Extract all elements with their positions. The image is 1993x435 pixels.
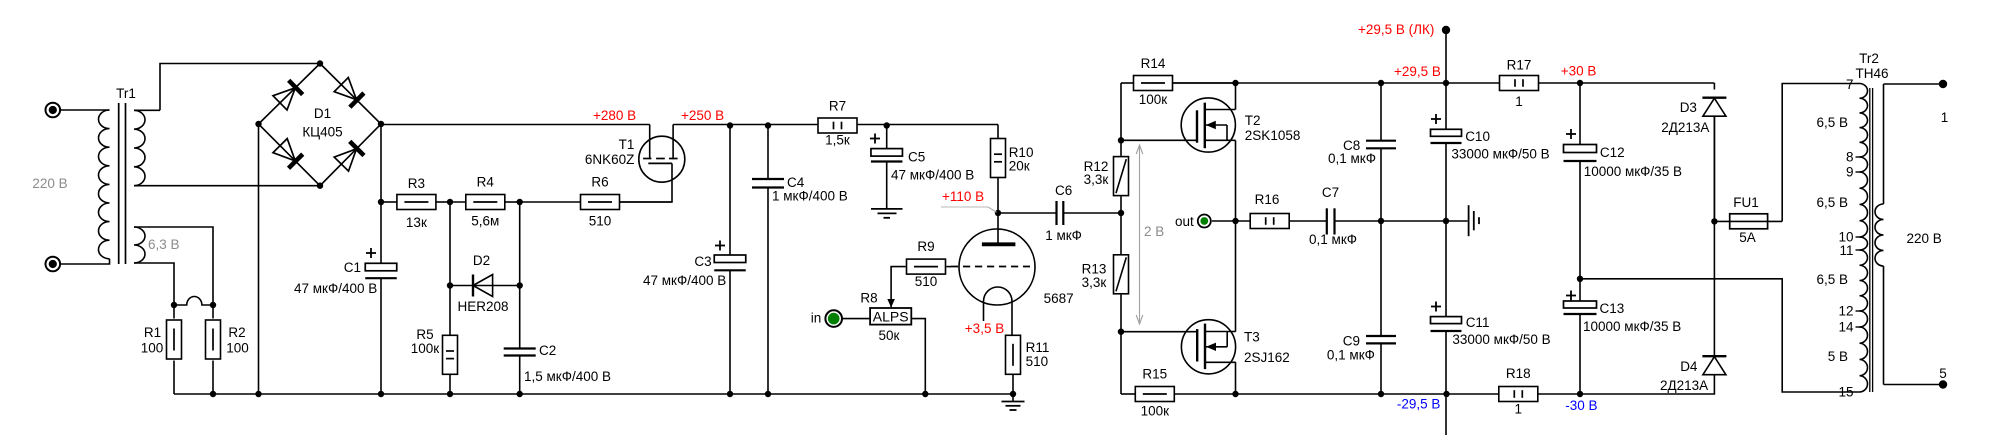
- svg-text:+29,5 В (ЛК): +29,5 В (ЛК): [1358, 22, 1434, 37]
- svg-text:1: 1: [1941, 110, 1949, 125]
- svg-text:ALPS: ALPS: [873, 309, 909, 325]
- transformer Tr1 core: [118, 103, 120, 264]
- tube T1 envelope: [639, 136, 685, 182]
- capacitor C7: [1326, 208, 1328, 234]
- svg-text:6,5 В: 6,5 В: [1816, 272, 1848, 287]
- svg-text:2 В: 2 В: [1144, 224, 1164, 239]
- svg-text:15: 15: [1838, 385, 1853, 400]
- svg-text:47 мкФ/400 В: 47 мкФ/400 В: [891, 167, 974, 182]
- svg-text:10000 мкФ/35 В: 10000 мкФ/35 В: [1583, 319, 1681, 334]
- svg-text:C10: C10: [1465, 129, 1490, 144]
- node C11 rail: [1443, 391, 1449, 397]
- wire D4 cathode up: [1713, 221, 1715, 355]
- svg-text:6,5 В: 6,5 В: [1816, 195, 1848, 210]
- tube T1 cathode lead to R6: [619, 163, 672, 202]
- tube 5687 envelope: [959, 229, 1035, 305]
- svg-text:R16: R16: [1255, 192, 1280, 207]
- tube T1 right lead to +250 rail: [672, 125, 674, 160]
- svg-text:50к: 50к: [879, 328, 900, 343]
- tube T1 cathode plate: [648, 162, 672, 164]
- svg-text:1,5к: 1,5к: [825, 133, 850, 148]
- node C6 out tap: [1118, 210, 1124, 216]
- wire +250 rail: [673, 124, 998, 126]
- terminal input bottom: [46, 257, 61, 272]
- svg-text:5,6м: 5,6м: [471, 213, 499, 228]
- svg-text:C3: C3: [694, 254, 711, 269]
- svg-text:3,3к: 3,3к: [1084, 172, 1109, 187]
- capacitor C2: [504, 347, 536, 349]
- wire Tr2 pin5: [1884, 384, 1944, 386]
- node C13 rail: [1577, 391, 1583, 397]
- svg-text:1: 1: [1515, 401, 1523, 416]
- svg-text:33000 мкФ/50 В: 33000 мкФ/50 В: [1452, 332, 1550, 347]
- svg-text:0,1 мкФ: 0,1 мкФ: [1328, 151, 1376, 166]
- bridge diode lower-left: [289, 154, 303, 168]
- svg-text:1: 1: [1515, 94, 1523, 109]
- svg-text:2Д213А: 2Д213А: [1661, 120, 1709, 135]
- node R2 ground: [210, 391, 216, 397]
- resistor R13: [1114, 255, 1129, 294]
- transformer Tr2 secondary winding: [1883, 84, 1885, 204]
- svg-text:47 мкФ/400 В: 47 мкФ/400 В: [294, 281, 377, 296]
- capacitor C9: [1380, 221, 1382, 336]
- node out tap: [1232, 218, 1238, 224]
- label C10 plus: [1431, 118, 1441, 120]
- wire out to node: [1212, 220, 1250, 222]
- svg-text:1 мкФ/400 В: 1 мкФ/400 В: [772, 189, 848, 204]
- label C1 plus: [366, 252, 376, 254]
- resistor R10: [997, 125, 999, 139]
- capacitor C6: [998, 212, 1057, 214]
- node FU1: [1711, 218, 1717, 224]
- node C10 rail: [1443, 80, 1449, 86]
- svg-text:+280 В: +280 В: [593, 108, 636, 123]
- svg-text:R14: R14: [1141, 56, 1166, 71]
- svg-text:C6: C6: [1055, 183, 1072, 198]
- Tr2 pin tick y237: [1856, 236, 1861, 238]
- diode D2: [450, 285, 473, 287]
- node C12-C13 mid: [1577, 276, 1583, 282]
- svg-text:+3,5 В: +3,5 В: [965, 321, 1004, 336]
- svg-text:T1: T1: [619, 137, 635, 152]
- svg-text:100к: 100к: [1141, 404, 1170, 419]
- svg-text:220 В: 220 В: [1907, 231, 1942, 246]
- svg-text:КЦ405: КЦ405: [302, 125, 342, 140]
- wire heater top to R2: [134, 227, 213, 304]
- svg-text:100к: 100к: [1139, 92, 1168, 107]
- terminal input top: [46, 103, 61, 118]
- label C12 plus: [1566, 133, 1576, 135]
- tube heater filament: [174, 297, 213, 306]
- svg-text:510: 510: [915, 274, 938, 289]
- svg-text:-29,5 В: -29,5 В: [1397, 397, 1441, 412]
- node bridge bottom: [317, 183, 323, 189]
- svg-text:+30 В: +30 В: [1561, 63, 1597, 78]
- wire Tr2 pin1: [1884, 83, 1944, 85]
- wire T2 gate: [1121, 139, 1197, 141]
- node R5 ground: [447, 391, 453, 397]
- svg-text:2Д213А: 2Д213А: [1660, 378, 1708, 393]
- svg-text:7: 7: [1846, 77, 1854, 92]
- svg-text:R18: R18: [1506, 366, 1531, 381]
- fuse FU1: [1714, 220, 1782, 222]
- svg-text:8: 8: [1846, 150, 1854, 165]
- node T3 gate tap: [1118, 329, 1124, 335]
- svg-text:+29,5 В: +29,5 В: [1394, 64, 1441, 79]
- svg-text:R3: R3: [408, 176, 425, 191]
- tube T1 heater dashes: [643, 158, 651, 160]
- svg-text:2SJ162: 2SJ162: [1244, 350, 1290, 365]
- svg-text:D4: D4: [1680, 359, 1698, 374]
- resistor R9: [907, 259, 946, 274]
- resistor R11: [1006, 335, 1021, 374]
- svg-text:R2: R2: [228, 325, 245, 340]
- svg-text:R17: R17: [1507, 57, 1532, 72]
- svg-text:33000 мкФ/50 В: 33000 мкФ/50 В: [1451, 147, 1549, 162]
- svg-text:C2: C2: [539, 343, 556, 358]
- wire +30 rail corner down: [1713, 83, 1715, 90]
- resistor R5: [443, 335, 458, 374]
- svg-text:5687: 5687: [1044, 291, 1074, 306]
- capacitor C3: [729, 125, 731, 256]
- svg-text:5: 5: [1939, 366, 1947, 381]
- node C3 ground: [727, 391, 733, 397]
- svg-text:ТН46: ТН46: [1855, 66, 1888, 81]
- bridge rectifier D1 frame: [259, 64, 382, 186]
- node C12 rail: [1577, 80, 1583, 86]
- wire T3 gate: [1121, 331, 1197, 333]
- svg-text:Tr1: Tr1: [116, 86, 136, 101]
- Tr2 pin tick y327: [1856, 326, 1861, 328]
- resistor R6: [581, 195, 620, 210]
- Tr2 pin tick y311: [1856, 310, 1861, 312]
- svg-text:T3: T3: [1244, 330, 1260, 345]
- svg-text:Tr2: Tr2: [1859, 51, 1879, 66]
- wire R4 node to R6: [520, 201, 581, 203]
- node bridge top: [317, 60, 323, 66]
- svg-text:2SK1058: 2SK1058: [1245, 128, 1301, 143]
- resistor R14: [1121, 82, 1133, 84]
- svg-text:13к: 13к: [406, 215, 427, 230]
- wire -30 rail to D4: [1580, 375, 1714, 395]
- resistor R4: [450, 201, 466, 203]
- leader +110V: [941, 206, 988, 208]
- svg-text:100: 100: [226, 341, 249, 356]
- svg-text:C11: C11: [1466, 315, 1490, 330]
- ground mid right: [1446, 220, 1468, 222]
- wiper wire R8 to R9: [891, 267, 906, 307]
- wire R8 to ground: [911, 319, 925, 394]
- svg-text:12: 12: [1838, 304, 1853, 319]
- node D2 right: [517, 282, 523, 288]
- resistor R16: [1250, 214, 1289, 229]
- Tr2 pin tick y157: [1856, 156, 1861, 158]
- wire T2 drain up: [1235, 83, 1237, 110]
- svg-text:C9: C9: [1343, 334, 1360, 349]
- svg-text:R5: R5: [416, 327, 433, 342]
- node bridge minus ground: [255, 391, 261, 397]
- svg-text:C12: C12: [1600, 145, 1625, 160]
- node C5 top: [884, 122, 890, 128]
- svg-text:FU1: FU1: [1733, 195, 1759, 210]
- capacitor C1: [365, 263, 397, 271]
- node C4 top: [765, 122, 771, 128]
- resistor R17: [1500, 76, 1539, 91]
- resistor R18: [1499, 387, 1538, 402]
- node C8-C9 mid: [1378, 218, 1384, 224]
- svg-text:C13: C13: [1600, 301, 1625, 316]
- wire HV sec top to bridge: [160, 64, 320, 111]
- ground under C5: [886, 201, 888, 209]
- wire T3 source down: [1235, 362, 1237, 394]
- node C4 ground: [765, 391, 771, 397]
- node C2 ground: [517, 391, 523, 397]
- wire HV sec bottom to bridge: [134, 185, 320, 187]
- resistor R12: [1114, 157, 1129, 196]
- node T2 drain rail: [1232, 80, 1238, 86]
- node C10-C11 mid: [1443, 218, 1449, 224]
- node T2 gate tap: [1118, 137, 1124, 143]
- svg-text:6NK60Z: 6NK60Z: [585, 152, 635, 167]
- wire +29.5 rail: [1173, 82, 1500, 84]
- wire bridge plus down: [380, 125, 382, 264]
- transistor T2 2SK1058: [1181, 98, 1235, 152]
- transistor T3 2SJ162: [1181, 320, 1235, 374]
- svg-text:220 В: 220 В: [32, 176, 67, 191]
- capacitor C10: [1445, 83, 1447, 129]
- potentiometer R8 ALPS: [870, 308, 911, 325]
- node anode 110V: [995, 210, 1001, 216]
- svg-text:R6: R6: [591, 174, 608, 189]
- transformer Tr2 core: [1869, 88, 1871, 392]
- tube 5687 anode: [997, 213, 999, 243]
- svg-text:9: 9: [1846, 165, 1854, 180]
- svg-text:5А: 5А: [1739, 230, 1756, 245]
- svg-text:+250 В: +250 В: [681, 108, 724, 123]
- resistor R3: [381, 201, 397, 203]
- node C8 rail: [1378, 80, 1384, 86]
- svg-text:20к: 20к: [1009, 159, 1030, 174]
- svg-text:3,3к: 3,3к: [1082, 275, 1107, 290]
- resistor R15: [1121, 393, 1135, 395]
- wire -29.5 rail: [1236, 393, 1500, 395]
- svg-text:11: 11: [1839, 243, 1853, 258]
- node bridge left: [255, 121, 261, 127]
- svg-text:6,5 В: 6,5 В: [1816, 115, 1848, 130]
- svg-text:100: 100: [141, 341, 164, 356]
- wire heater bottom to R1: [134, 263, 174, 304]
- transformer Tr1 heater winding 6.3V: [134, 227, 145, 263]
- node C9 rail: [1378, 391, 1384, 397]
- wire FU1 to Tr2 pin7: [1782, 84, 1859, 222]
- bridge diode upper-right: [350, 93, 364, 107]
- svg-text:C1: C1: [344, 260, 361, 275]
- svg-text:R4: R4: [477, 174, 495, 189]
- transformer Tr1 primary winding: [60, 109, 110, 111]
- connector in: [825, 310, 842, 327]
- resistor R7: [818, 118, 857, 133]
- wire in to R8: [842, 318, 870, 320]
- svg-text:100к: 100к: [411, 341, 440, 356]
- node R3 tap: [378, 199, 384, 205]
- svg-text:-30 В: -30 В: [1565, 398, 1597, 413]
- tube 5687 grid: [951, 266, 1030, 268]
- node R4-R6: [517, 199, 523, 205]
- wiper arrow: [887, 299, 895, 308]
- node C1 ground: [378, 391, 384, 397]
- svg-text:510: 510: [1026, 354, 1049, 369]
- svg-text:out: out: [1175, 214, 1194, 229]
- tube 5687 cathode: [984, 287, 1013, 336]
- svg-text:14: 14: [1838, 320, 1854, 335]
- tube T1 anode lead: [649, 125, 651, 159]
- label C13 plus: [1566, 295, 1576, 297]
- svg-text:D2: D2: [473, 253, 490, 268]
- label C11 plus: [1431, 306, 1441, 308]
- node R1 top: [171, 302, 177, 308]
- wire T3 drain top: [1235, 221, 1237, 332]
- bridge diode lower-right: [350, 141, 364, 155]
- node bridge right: [378, 121, 384, 127]
- svg-text:R1: R1: [144, 325, 161, 340]
- wire divider vertical: [1120, 83, 1122, 156]
- node D2 left: [447, 282, 453, 288]
- svg-text:510: 510: [589, 213, 612, 228]
- svg-text:R8: R8: [860, 291, 877, 306]
- stub -29.5 LK: [1445, 394, 1447, 435]
- transformer Tr2 primary winding: [1860, 84, 1868, 157]
- label C3 plus: [715, 245, 725, 247]
- svg-text:D1: D1: [314, 106, 331, 121]
- wire mid to Tr2 pin15: [1580, 279, 1860, 392]
- node R11 ground: [1010, 391, 1016, 397]
- capacitor C13: [1579, 279, 1581, 301]
- svg-text:10000 мкФ/35 В: 10000 мкФ/35 В: [1584, 164, 1682, 179]
- svg-text:in: in: [811, 311, 822, 326]
- resistor R2: [212, 304, 214, 319]
- stub +29.5 LK: [1445, 30, 1447, 83]
- node R2 top: [210, 302, 216, 308]
- svg-text:R15: R15: [1142, 367, 1167, 382]
- wire bridge minus down: [258, 124, 260, 394]
- svg-text:R7: R7: [829, 99, 846, 114]
- wire C3 top lead: [729, 125, 731, 256]
- svg-text:6,3 В: 6,3 В: [148, 237, 180, 252]
- wire ground rail: [174, 393, 1013, 395]
- svg-text:0,1 мкФ: 0,1 мкФ: [1327, 347, 1375, 362]
- svg-text:1,5 мкФ/400 В: 1,5 мкФ/400 В: [524, 369, 611, 384]
- capacitor C8: [1380, 83, 1382, 141]
- capacitor C12: [1579, 83, 1581, 145]
- wire B+ rail 280V: [381, 124, 650, 126]
- capacitor C5: [886, 125, 888, 149]
- svg-text:0,1 мкФ: 0,1 мкФ: [1309, 232, 1357, 247]
- svg-text:1 мкФ: 1 мкФ: [1045, 228, 1082, 243]
- capacitor C11: [1445, 221, 1447, 317]
- wire R4R6 node down: [519, 202, 521, 349]
- Tr2 pin tick y250: [1856, 249, 1861, 251]
- node R3-R4: [447, 199, 453, 205]
- wire T2 source down: [1235, 140, 1237, 221]
- svg-text:R11: R11: [1026, 340, 1050, 355]
- Tr2 pin tick y172: [1856, 171, 1861, 173]
- diode D3: [1713, 83, 1715, 90]
- wire C1 to ground: [380, 278, 382, 394]
- svg-text:C7: C7: [1322, 185, 1339, 200]
- measure arrow 2V: [1139, 146, 1141, 323]
- svg-text:D3: D3: [1680, 100, 1697, 115]
- node T3 source rail: [1232, 391, 1238, 397]
- wire R3R4 node down: [449, 202, 451, 336]
- svg-text:47 мкФ/400 В: 47 мкФ/400 В: [643, 273, 726, 288]
- svg-text:5 В: 5 В: [1828, 349, 1848, 364]
- svg-text:R9: R9: [917, 239, 934, 254]
- svg-text:+110 В: +110 В: [942, 189, 984, 204]
- ground under R11: [1012, 394, 1014, 402]
- node R8 ground: [922, 391, 928, 397]
- svg-text:HER208: HER208: [457, 299, 508, 314]
- bridge diode upper-left: [289, 80, 303, 94]
- label C5 plus: [870, 138, 880, 140]
- wire D3 anode down: [1713, 116, 1715, 221]
- transformer Tr1 secondary HV winding: [134, 110, 145, 185]
- connector out: [1198, 215, 1211, 228]
- svg-text:T2: T2: [1245, 113, 1261, 128]
- wire D2 left lead: [450, 285, 473, 287]
- node C3 top: [727, 122, 733, 128]
- capacitor C4: [767, 125, 769, 180]
- resistor R1: [173, 304, 175, 319]
- svg-text:C5: C5: [908, 150, 925, 165]
- diode D4: [1713, 221, 1715, 374]
